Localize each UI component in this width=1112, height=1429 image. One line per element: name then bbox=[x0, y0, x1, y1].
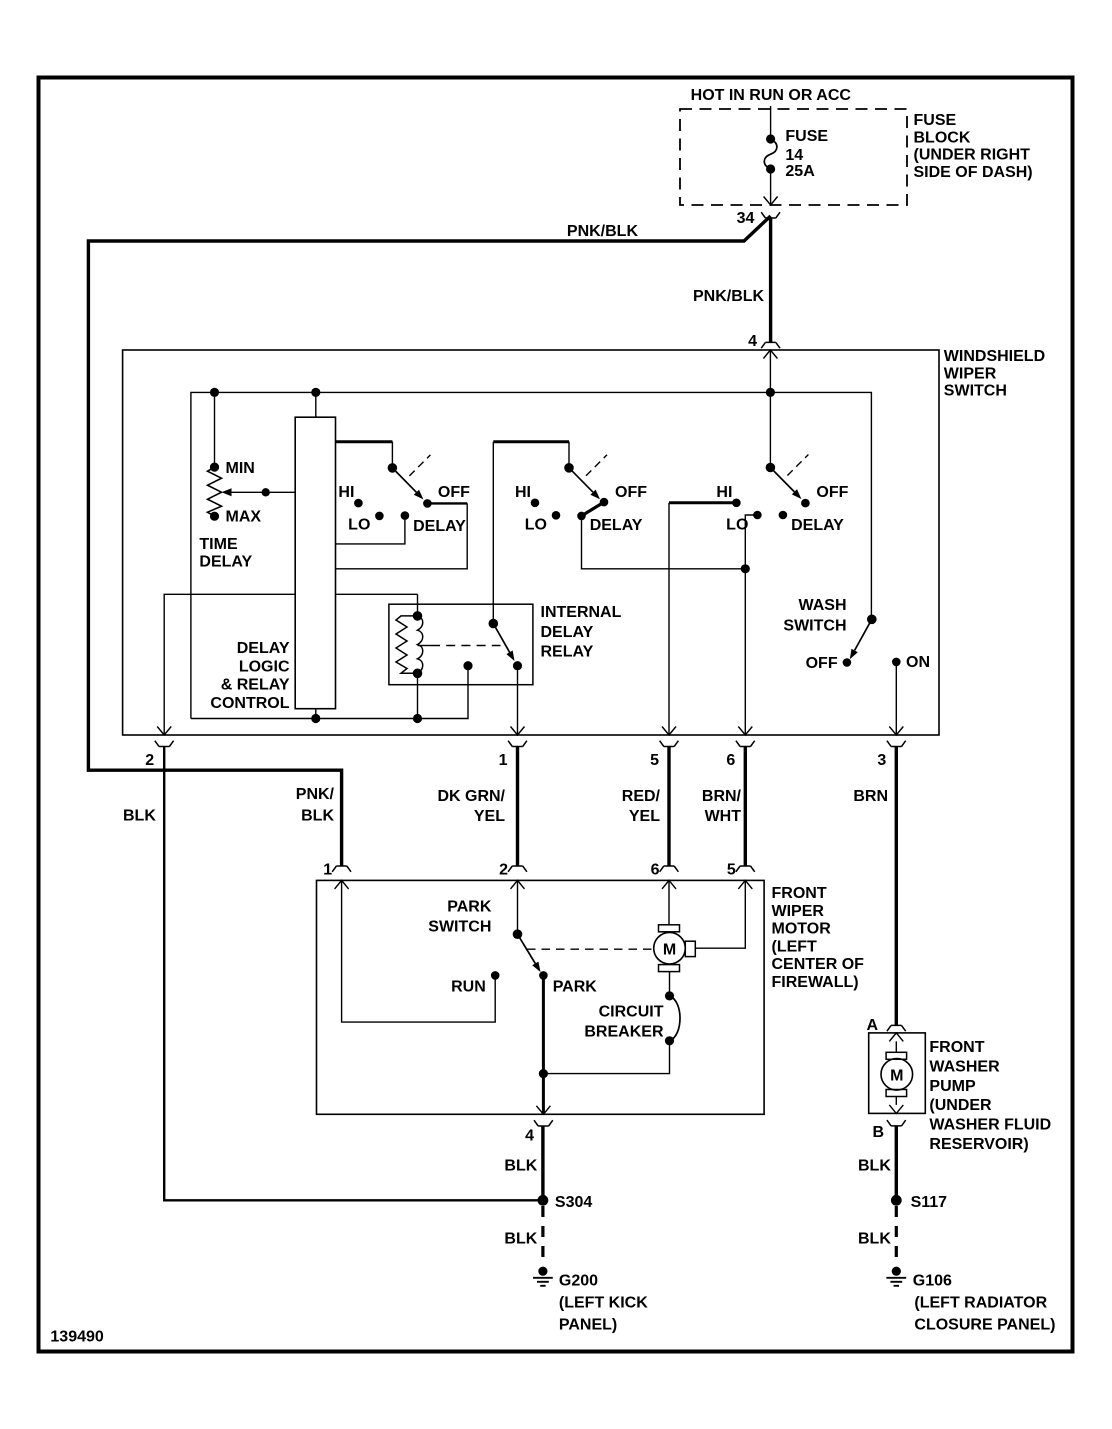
svg-text:BLK: BLK bbox=[858, 1231, 891, 1248]
connector pin 6 (wiper switch) bbox=[738, 727, 752, 736]
svg-text:5: 5 bbox=[727, 862, 736, 879]
svg-text:WHT: WHT bbox=[705, 808, 742, 825]
svg-text:PUMP: PUMP bbox=[929, 1078, 976, 1095]
svg-text:LO: LO bbox=[348, 517, 370, 534]
relay coil bbox=[417, 594, 419, 616]
svg-text:MIN: MIN bbox=[226, 460, 255, 477]
internal delay relay box bbox=[389, 604, 533, 685]
motor M (washer pump) bbox=[895, 1041, 897, 1052]
wire SW2 DELAY contact to pin 6 node bbox=[582, 516, 746, 569]
wire logic box to ground bus bbox=[315, 709, 317, 719]
connector pin 4 (wiper switch) bbox=[761, 342, 780, 348]
svg-text:OFF: OFF bbox=[438, 484, 470, 501]
wire bracket to relay common bbox=[492, 442, 494, 624]
wire BLK (S117 to G106, dashed) bbox=[895, 1206, 898, 1266]
wire motor to circuit breaker bbox=[669, 972, 671, 996]
relay mechanical link (dashed) bbox=[418, 645, 432, 647]
svg-text:OFF: OFF bbox=[806, 655, 838, 672]
svg-text:RELAY: RELAY bbox=[541, 644, 594, 661]
connector pin 5 (wiper switch) bbox=[662, 727, 676, 736]
svg-text:6: 6 bbox=[726, 752, 735, 769]
svg-text:S117: S117 bbox=[911, 1194, 948, 1211]
svg-text:2: 2 bbox=[145, 752, 154, 769]
svg-text:(UNDER RIGHT: (UNDER RIGHT bbox=[914, 147, 1031, 164]
svg-text:M: M bbox=[663, 942, 676, 959]
svg-text:CENTER OF: CENTER OF bbox=[772, 956, 865, 973]
wire pump motor to pin B bbox=[895, 1097, 897, 1105]
front washer pump box bbox=[869, 1033, 926, 1114]
svg-text:HI: HI bbox=[338, 484, 354, 501]
svg-text:TIME: TIME bbox=[199, 536, 238, 553]
svg-text:139490: 139490 bbox=[50, 1328, 103, 1345]
svg-text:WASHER FLUID: WASHER FLUID bbox=[929, 1117, 1051, 1134]
svg-text:SIDE OF DASH): SIDE OF DASH) bbox=[914, 164, 1033, 181]
node splice S304 bbox=[538, 1195, 549, 1206]
svg-text:3: 3 bbox=[877, 752, 886, 769]
node junction on bus (pin 4 feed) bbox=[766, 388, 775, 397]
svg-text:G106: G106 bbox=[913, 1272, 952, 1289]
svg-text:25A: 25A bbox=[785, 163, 815, 180]
svg-text:PNK/: PNK/ bbox=[296, 786, 335, 803]
fuse F14 25A bbox=[766, 134, 775, 143]
ground G200 bbox=[538, 1267, 547, 1276]
svg-text:DELAY: DELAY bbox=[590, 517, 643, 534]
wire BLK (pump to S117) bbox=[895, 1126, 898, 1200]
svg-text:& RELAY: & RELAY bbox=[221, 677, 290, 694]
fuse block (dashed box) bbox=[680, 109, 907, 205]
node junction on bus (logic box tap) bbox=[311, 388, 320, 397]
svg-text:FIREWALL): FIREWALL) bbox=[772, 974, 859, 991]
wire PNK/BLK (fuse to wiper switch pin 4, thick) bbox=[769, 218, 772, 342]
svg-text:1: 1 bbox=[499, 752, 508, 769]
svg-text:LOGIC: LOGIC bbox=[239, 658, 290, 675]
wire from HOT feed to fuse bbox=[770, 106, 772, 139]
svg-text:BREAKER: BREAKER bbox=[584, 1024, 664, 1041]
svg-text:M: M bbox=[890, 1068, 903, 1085]
switch SW2 (wiper mode, relay side) bbox=[564, 463, 574, 473]
svg-text:SWITCH: SWITCH bbox=[944, 383, 1007, 400]
node relay return bbox=[463, 661, 472, 670]
svg-text:CLOSURE PANEL): CLOSURE PANEL) bbox=[914, 1317, 1055, 1334]
wire motor to pin 5 bbox=[695, 880, 745, 948]
svg-text:14: 14 bbox=[785, 147, 803, 164]
wiper arrow of potentiometer bbox=[229, 491, 295, 493]
wire SW1 DELAY contact to logic bbox=[336, 516, 405, 544]
svg-text:PNK/BLK: PNK/BLK bbox=[567, 223, 639, 240]
svg-text:RUN: RUN bbox=[451, 979, 486, 996]
svg-text:DELAY: DELAY bbox=[199, 554, 252, 571]
svg-text:DELAY: DELAY bbox=[413, 518, 466, 535]
wire BLK (pin 2 to S304) bbox=[164, 747, 538, 1201]
connector pin A (washer pump) bbox=[887, 1025, 906, 1031]
wire PARK contact to pin 4 bbox=[542, 975, 545, 1114]
connector pin 6 (wiper motor) bbox=[660, 866, 679, 872]
svg-text:(LEFT RADIATOR: (LEFT RADIATOR bbox=[914, 1295, 1047, 1312]
circuit breaker bbox=[665, 991, 674, 1000]
wire internal supply bus bbox=[769, 350, 771, 392]
connector pin 2 (wiper motor) bbox=[508, 866, 527, 872]
wire pin 2 feed bbox=[164, 594, 295, 735]
park switch mechanical link (dashed) bbox=[527, 948, 654, 950]
svg-text:SWITCH: SWITCH bbox=[783, 618, 846, 635]
front wiper motor box bbox=[317, 880, 765, 1114]
svg-text:(LEFT KICK: (LEFT KICK bbox=[559, 1295, 648, 1312]
connector pin 4 (wiper motor) bbox=[536, 1106, 550, 1115]
wire BRN (pin 3 to washer pump) bbox=[895, 747, 898, 1026]
connector pin 1 (wiper motor) bbox=[332, 866, 351, 872]
connector pin 34 bbox=[761, 212, 780, 218]
svg-text:FRONT: FRONT bbox=[772, 885, 827, 902]
svg-text:A: A bbox=[866, 1017, 878, 1034]
svg-text:(UNDER: (UNDER bbox=[929, 1097, 992, 1114]
wire breaker to park node bbox=[543, 1041, 669, 1074]
svg-text:B: B bbox=[872, 1124, 884, 1141]
svg-text:SWITCH: SWITCH bbox=[428, 919, 491, 936]
motor M (front wiper) bbox=[668, 880, 670, 924]
switch SW1 (wiper mode, logic side) bbox=[388, 463, 398, 473]
svg-text:BLK: BLK bbox=[504, 1231, 537, 1248]
svg-text:WIPER: WIPER bbox=[944, 365, 997, 382]
svg-text:CONTROL: CONTROL bbox=[210, 695, 289, 712]
svg-text:OFF: OFF bbox=[615, 484, 647, 501]
svg-text:5: 5 bbox=[650, 752, 659, 769]
svg-text:BLK: BLK bbox=[858, 1158, 891, 1175]
wire internal return bus bbox=[191, 666, 468, 719]
svg-text:(LEFT: (LEFT bbox=[772, 938, 818, 955]
svg-text:CIRCUIT: CIRCUIT bbox=[599, 1004, 664, 1021]
svg-text:BRN: BRN bbox=[853, 788, 888, 805]
wire SW3 HI contact to pin 5 bbox=[669, 501, 736, 504]
connector pin 5 (wiper motor) bbox=[736, 866, 755, 872]
connector pin B (washer pump) bbox=[887, 1120, 906, 1126]
svg-text:LO: LO bbox=[525, 517, 547, 534]
svg-text:DELAY: DELAY bbox=[791, 517, 844, 534]
wire coil to return bus bbox=[417, 673, 419, 718]
delay logic & relay control box bbox=[295, 417, 335, 709]
wire RED/YEL (pin 5 to motor pin 6) bbox=[667, 747, 670, 867]
wire SW3 LO contact to pin 6 node bbox=[745, 515, 757, 569]
wire BLK (motor pin 4 to S304) bbox=[541, 1126, 544, 1200]
switch SW3 (wiper mode, motor side) bbox=[766, 463, 776, 473]
svg-text:BLK: BLK bbox=[301, 807, 334, 824]
connector pin 3 (wiper switch) bbox=[889, 727, 903, 736]
ground G106 bbox=[892, 1267, 901, 1276]
node splice S117 bbox=[891, 1195, 902, 1206]
svg-text:MAX: MAX bbox=[226, 509, 262, 526]
wire motor pin 2 to park switch bbox=[517, 880, 519, 934]
relay switch bbox=[489, 619, 499, 629]
svg-text:WASH: WASH bbox=[799, 597, 847, 614]
wire junction to pin 6 bbox=[744, 569, 746, 735]
node junction pin 6 bbox=[741, 564, 750, 573]
wire wash switch ON to pin 3 bbox=[895, 662, 897, 735]
svg-text:HI: HI bbox=[515, 484, 531, 501]
wire switch 2 feed bracket bbox=[493, 440, 569, 443]
svg-text:PARK: PARK bbox=[447, 899, 492, 916]
svg-text:MOTOR: MOTOR bbox=[772, 921, 832, 938]
svg-text:PANEL): PANEL) bbox=[559, 1317, 617, 1334]
svg-text:RESERVOIR): RESERVOIR) bbox=[929, 1136, 1028, 1153]
wire logic box to relay coil bbox=[336, 593, 418, 595]
wire BLK (S304 to G200, dashed) bbox=[541, 1206, 544, 1266]
wire BRN/WHT (pin 6 to motor pin 5) bbox=[744, 747, 747, 867]
svg-text:S304: S304 bbox=[555, 1194, 592, 1211]
svg-text:6: 6 bbox=[651, 862, 660, 879]
svg-text:34: 34 bbox=[737, 210, 755, 227]
svg-text:DK GRN/: DK GRN/ bbox=[437, 788, 505, 805]
wire relay contact to pin 1 bbox=[517, 666, 519, 735]
svg-text:OFF: OFF bbox=[816, 484, 848, 501]
svg-text:4: 4 bbox=[525, 1128, 534, 1145]
svg-text:BLK: BLK bbox=[504, 1158, 537, 1175]
svg-text:YEL: YEL bbox=[629, 808, 660, 825]
wire bus to time-delay resistor bbox=[214, 392, 216, 467]
windshield wiper switch box bbox=[123, 350, 939, 735]
svg-text:1: 1 bbox=[323, 862, 332, 879]
svg-text:HOT IN RUN OR ACC: HOT IN RUN OR ACC bbox=[691, 87, 852, 104]
svg-text:WIPER: WIPER bbox=[772, 903, 825, 920]
wire motor pin 1 to RUN contact bbox=[342, 880, 496, 1022]
wire switch 1 feed bracket bbox=[336, 440, 393, 443]
wire PNK/BLK (fuse to wiper motor pin 1, thick) bbox=[88, 216, 770, 866]
wire SW1 OFF contact to logic bbox=[427, 502, 467, 504]
svg-text:FUSE: FUSE bbox=[914, 112, 957, 129]
svg-text:2: 2 bbox=[499, 862, 508, 879]
svg-text:WASHER: WASHER bbox=[929, 1058, 1000, 1075]
svg-text:PNK/BLK: PNK/BLK bbox=[693, 288, 765, 305]
wire fuse to fuse block pin 34 bbox=[770, 169, 772, 205]
svg-text:4: 4 bbox=[748, 333, 757, 350]
connector pin 1 (wiper switch) bbox=[511, 727, 525, 736]
svg-text:RED/: RED/ bbox=[622, 788, 661, 805]
wire DK GRN/YEL (pin 1 to motor pin 2) bbox=[516, 747, 519, 867]
wire bus to switch 3 pivot bbox=[769, 392, 771, 467]
svg-text:HI: HI bbox=[716, 484, 732, 501]
svg-text:BLK: BLK bbox=[123, 808, 156, 825]
node junction (park/breaker) bbox=[539, 1069, 548, 1078]
svg-text:ON: ON bbox=[906, 654, 930, 671]
node junction on bus (resistor tap) bbox=[210, 388, 219, 397]
svg-text:YEL: YEL bbox=[474, 808, 505, 825]
connector pin 2 (wiper switch) bbox=[157, 727, 171, 736]
svg-text:PARK: PARK bbox=[553, 979, 598, 996]
svg-text:FRONT: FRONT bbox=[929, 1039, 984, 1056]
svg-text:INTERNAL: INTERNAL bbox=[541, 604, 622, 621]
resistor TIME DELAY (potentiometer) bbox=[210, 463, 219, 472]
svg-text:WINDSHIELD: WINDSHIELD bbox=[944, 348, 1045, 365]
svg-text:FUSE: FUSE bbox=[785, 128, 828, 145]
svg-text:BLOCK: BLOCK bbox=[914, 129, 971, 146]
svg-text:DELAY: DELAY bbox=[541, 624, 594, 641]
svg-text:BRN/: BRN/ bbox=[702, 788, 742, 805]
svg-text:G200: G200 bbox=[559, 1272, 598, 1289]
svg-text:DELAY: DELAY bbox=[237, 640, 290, 657]
